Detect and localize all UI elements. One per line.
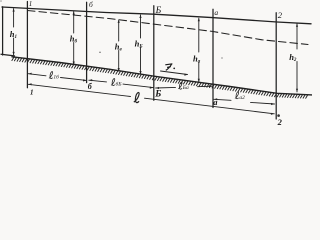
- ground line: [12, 57, 312, 95]
- point line B: [153, 6, 155, 101]
- arrowheads hb: [73, 11, 75, 65]
- dim line l_a2: [214, 99, 275, 104]
- arrow hb shaft: [73, 12, 75, 65]
- arrowheads l total: [28, 83, 274, 115]
- svg-text:1б: 1б: [53, 73, 59, 80]
- inclined dashed sight line: [28, 11, 309, 45]
- svg-text:2: 2: [277, 117, 283, 127]
- specks: [0, 0, 280, 117]
- point line b: [86, 2, 88, 82]
- svg-text:1: 1: [29, 0, 33, 8]
- dim line l_Ba: [156, 86, 213, 88]
- arrowheads l_bB: [89, 79, 153, 89]
- level sight line (instrument horizon): [2, 7, 311, 24]
- svg-text:а: а: [214, 8, 218, 17]
- arrow h1 shaft: [13, 9, 15, 55]
- point line 1: [26, 2, 28, 88]
- svg-text:Б: Б: [155, 6, 162, 16]
- svg-text:а2: а2: [239, 95, 245, 101]
- dim line l (total): [28, 84, 274, 114]
- point line 2: [275, 13, 277, 119]
- arrowheads hB: [139, 15, 141, 75]
- label l total: [134, 92, 139, 102]
- arrow h2 shaft: [296, 24, 298, 92]
- arrowheads hv: [118, 20, 120, 72]
- svg-text:бБ: бБ: [116, 81, 123, 88]
- base mark at point 1: [1, 54, 15, 56]
- arrowheads h2: [296, 23, 298, 92]
- dim line l_bB: [89, 80, 153, 87]
- dim line l_1b: [28, 74, 86, 81]
- svg-text:Б: Б: [154, 90, 161, 100]
- point line a: [212, 9, 214, 107]
- arrowheads l_Ba: [156, 85, 213, 89]
- arrow hv shaft: [118, 20, 120, 71]
- svg-text:Ба: Ба: [182, 85, 189, 91]
- arrowheads h1: [13, 8, 15, 55]
- arrowheads ha: [198, 18, 200, 82]
- label l_Ba: [178, 82, 189, 91]
- arrowheads l_a2: [214, 98, 275, 105]
- left edge staff line: [2, 7, 4, 55]
- label Z_b: [165, 64, 172, 71]
- svg-text:2: 2: [278, 10, 283, 20]
- arrow hB shaft: [140, 15, 142, 74]
- arrowheads l_1b: [28, 73, 86, 82]
- ground hatching: [12, 57, 308, 98]
- label l_1b: [49, 72, 59, 81]
- label l_a2: [235, 92, 245, 101]
- svg-text:б: б: [89, 0, 93, 9]
- arrowhead Z: [184, 74, 187, 76]
- arrow ha shaft: [198, 18, 200, 82]
- svg-text:а: а: [213, 97, 218, 107]
- label l_bB: [111, 79, 122, 88]
- svg-text:1: 1: [30, 89, 34, 97]
- Z direction arrow: [161, 71, 188, 75]
